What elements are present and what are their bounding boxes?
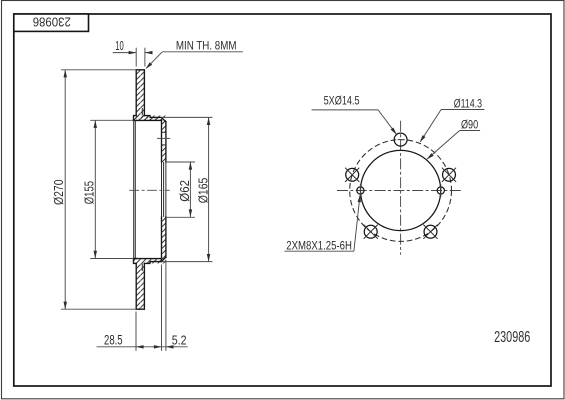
disc section outline top band [136, 70, 144, 116]
svg-text:2XM8X1.25-6H: 2XM8X1.25-6H [286, 239, 352, 253]
disc section top hat flange [134, 116, 166, 122]
hub silhouette line pair [134, 120, 136, 258]
dimension 10 [113, 48, 152, 67]
leader 2XM8X1.25-6H [284, 195, 360, 251]
bolt hole upper right [442, 168, 456, 182]
bolt circle Ø114.3 dashed [350, 140, 452, 242]
svg-text:230986: 230986 [494, 329, 530, 346]
svg-text:Ø114.3: Ø114.3 [454, 97, 482, 111]
section centre line [129, 189, 170, 191]
section hatching [134, 70, 166, 309]
threaded hole M8 left [357, 184, 364, 197]
svg-text:10: 10 [115, 38, 124, 53]
svg-text:Ø155: Ø155 [82, 181, 97, 204]
svg-text:Ø90: Ø90 [461, 118, 478, 132]
mounting face edges [162, 120, 166, 261]
dimension Ø270 [61, 70, 136, 309]
dimension Ø165 [161, 117, 212, 261]
dimension Ø62 [166, 162, 195, 217]
bolt hole lower right [423, 225, 437, 239]
hat neck inner edge bottom [141, 264, 143, 271]
bolt hole lower left [364, 225, 378, 239]
dimension Ø155 [90, 120, 133, 258]
dimension 28.5 and 5.2 [97, 260, 188, 351]
svg-text:230986: 230986 [33, 15, 71, 29]
bolt hole gap lines in mounting face [162, 132, 166, 145]
leader Ø90 [427, 131, 480, 160]
centre bore edge lines through Ø62 hole [162, 162, 166, 217]
bolt hole centre mark in section [157, 137, 170, 139]
threaded hole M8 right [437, 184, 444, 197]
disc section bottom hat flange [134, 257, 166, 263]
top bolt hole Ø14.5 [394, 133, 407, 146]
hub circle Ø90 [361, 150, 441, 230]
svg-text:Ø270: Ø270 [51, 180, 66, 206]
leader 5XØ14.5 [312, 110, 397, 134]
leader MIN TH. 8MM [146, 52, 243, 69]
hat neck inner edge top [141, 108, 143, 115]
svg-text:5XØ14.5: 5XØ14.5 [324, 93, 360, 107]
leader Ø114.3 [420, 110, 484, 142]
svg-text:Ø62: Ø62 [177, 180, 192, 202]
front view centre lines [337, 121, 462, 255]
svg-text:Ø165: Ø165 [195, 178, 210, 204]
title box [14, 14, 89, 31]
disc section outline bottom band [136, 263, 144, 309]
svg-text:28.5: 28.5 [104, 333, 123, 348]
bolt hole upper left [345, 168, 359, 182]
svg-text:5.2: 5.2 [172, 332, 187, 347]
svg-text:MIN TH. 8MM: MIN TH. 8MM [176, 39, 237, 52]
